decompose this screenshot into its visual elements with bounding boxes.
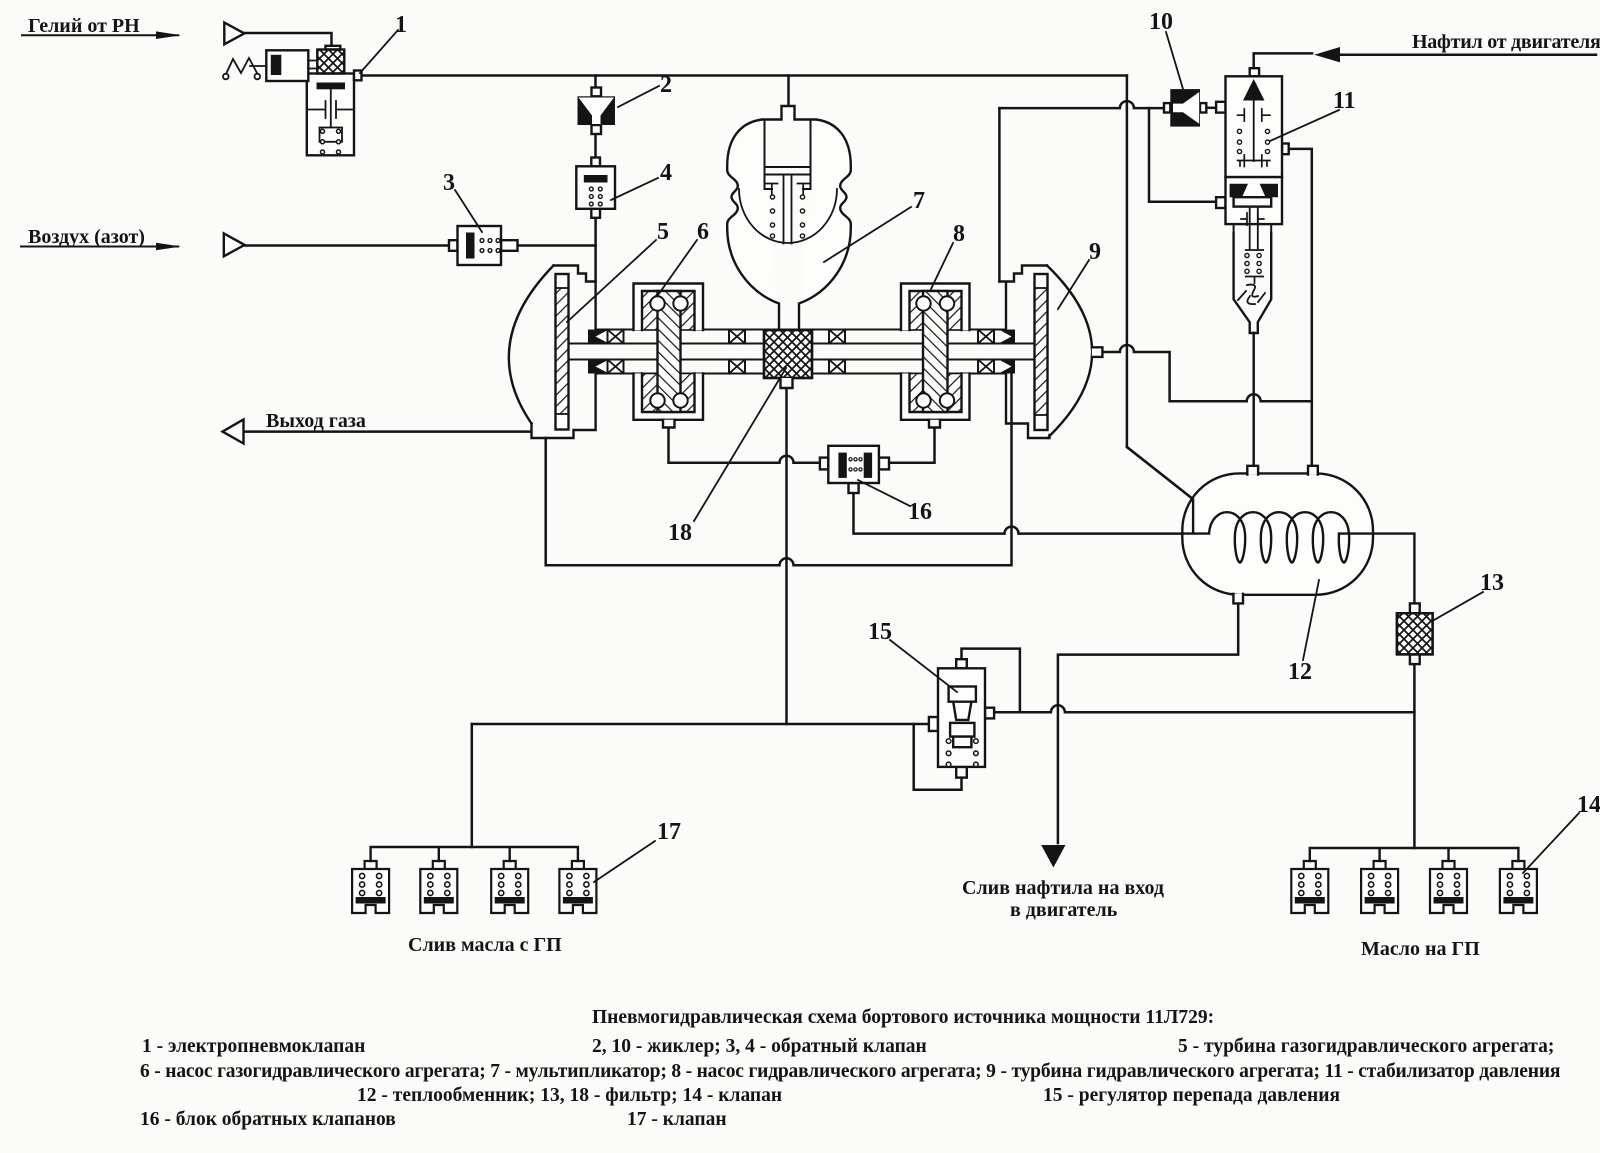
drain manifold 17 — [371, 847, 578, 861]
wire: coil outlet to filter 13 — [1339, 534, 1414, 604]
heat exchanger 12 — [1182, 473, 1373, 594]
svg-text:12 - теплообменник; 13, 18: 12 - теплообменник; 13, 18 - фильтр; 14 … — [357, 1085, 782, 1106]
svg-text:5 - турбина газогидравличес: 5 - турбина газогидравлического агрегата… — [1178, 1036, 1554, 1057]
turbine 5 rotor — [556, 274, 569, 430]
bearing right lower — [978, 360, 994, 374]
svg-text:Слив нафтила на вход: Слив нафтила на вход — [962, 877, 1164, 899]
pump 6 housing upper — [634, 284, 704, 331]
svg-text:10: 10 — [1149, 9, 1173, 35]
svg-text:7: 7 — [913, 188, 925, 214]
svg-text:1 - электропневмоклапан: 1 - электропневмоклапан — [142, 1036, 365, 1057]
wire: shaft lines — [569, 330, 1035, 374]
valve 14 unit c — [1430, 861, 1467, 913]
seal left upper — [588, 330, 607, 344]
svg-text:2, 10 - жиклер; 3, 4 - об: 2, 10 - жиклер; 3, 4 - обратный клапан — [592, 1036, 927, 1057]
wire: check valve 3 to vertical line tee — [518, 244, 596, 247]
node: label 18 leader — [694, 368, 786, 521]
heat exchanger top right nub — [1308, 466, 1318, 475]
node: label 9 leader — [1058, 260, 1089, 309]
valve 17 unit a — [352, 861, 389, 913]
multiplier 7 piston cylinder — [765, 121, 811, 190]
node: label 12 leader — [1303, 580, 1319, 660]
valve 14 unit a — [1291, 861, 1328, 913]
bearing mid-right lower — [829, 360, 845, 374]
wire: pump 6 drain to check valve block 16 with hop — [669, 428, 820, 463]
svg-text:13: 13 — [1480, 570, 1504, 596]
bearing mid-right upper — [829, 330, 845, 344]
node: air inlet arrow — [21, 246, 178, 248]
node: label 11 leader — [1270, 110, 1339, 141]
svg-text:2: 2 — [660, 72, 672, 98]
turbine 9 rotor — [1035, 274, 1048, 430]
wire: check valve 4 down to turbine 5 inlet — [594, 217, 597, 282]
node: label 17 leader — [594, 841, 655, 882]
multiplier 7 inner bowl — [739, 189, 837, 243]
pump 6 bearing balls — [650, 296, 664, 310]
heat exchanger top left nub — [1247, 466, 1258, 475]
svg-text:5: 5 — [657, 219, 669, 245]
node: label 2 leader — [618, 86, 659, 107]
svg-text:Выход газа: Выход газа — [266, 410, 366, 432]
svg-text:17: 17 — [657, 819, 681, 845]
pressure-drop regulator 15 — [929, 659, 994, 777]
svg-text:9: 9 — [1089, 239, 1101, 265]
pressure stabilizer 11 — [1216, 68, 1289, 333]
node: helium inlet arrow — [22, 34, 178, 36]
svg-text:16 - блок обратных клапанов: 16 - блок обратных клапанов — [140, 1109, 396, 1130]
jet 10 — [1164, 89, 1206, 127]
node: gas outlet open triangle — [223, 420, 244, 444]
wire: valve 15 bottom loop — [914, 724, 962, 790]
wire: helium inlet to valve 1 — [244, 33, 332, 46]
svg-text:в двигатель: в двигатель — [1010, 899, 1118, 921]
pump 6 rotor column — [658, 291, 681, 412]
wire: main gas line from valve 1 output across top — [362, 74, 1127, 77]
bearing left lower — [608, 360, 624, 374]
coupling 18 block — [764, 330, 812, 378]
check valve block 16 — [820, 446, 889, 493]
electro-pneumatic valve 1 — [223, 46, 362, 156]
node: label 15 leader — [890, 640, 957, 692]
node: label 13 leader — [1434, 592, 1483, 620]
pump 8 bearing balls — [916, 296, 930, 310]
node: label 1 leader — [360, 30, 398, 73]
svg-text:Нафтил от двигателя: Нафтил от двигателя — [1412, 31, 1600, 53]
wire: line to jet 10 with hop — [999, 101, 1164, 108]
bearing left upper — [608, 330, 624, 344]
wire: naftil drain from heat exchanger bottom to engine — [1058, 603, 1238, 843]
bearing mid-left lower — [729, 360, 745, 374]
wire: valve 15 top loop — [962, 649, 1020, 713]
node: naftil drain arrowhead — [1041, 845, 1065, 868]
svg-text:11: 11 — [1333, 88, 1356, 114]
pump 8 drain stem — [929, 420, 940, 428]
pump 8 housing lower — [901, 374, 970, 420]
wire: valve 15 output to filter column with hop — [994, 705, 1414, 712]
wire: multiplier 7 top stem to main line — [787, 76, 790, 107]
seal right upper — [1001, 330, 1015, 344]
svg-text:1: 1 — [395, 12, 407, 38]
node: label 8 leader — [931, 243, 953, 289]
node: label 14 leader — [1523, 813, 1579, 873]
wire: turbine 9 shaft nub to heat exchanger line with hops — [1102, 345, 1311, 401]
bearing right upper — [978, 330, 994, 344]
svg-text:16: 16 — [908, 499, 932, 525]
node: label 6 leader — [658, 240, 697, 295]
node: label 7 leader — [824, 207, 911, 262]
multiplier 7 piston rod — [784, 175, 792, 244]
heat exchanger coil — [1127, 447, 1349, 563]
svg-text:8: 8 — [953, 221, 965, 247]
svg-text:Воздух (азот): Воздух (азот) — [28, 226, 145, 248]
svg-text:18: 18 — [668, 520, 692, 546]
svg-text:17 - клапан: 17 - клапан — [627, 1109, 727, 1130]
svg-text:14: 14 — [1577, 792, 1600, 818]
wire: branch down to stabilizer 11 lower-left port — [1149, 108, 1216, 202]
wire: check valve block 16 bottom to heat exchanger inlet with hop — [854, 493, 1210, 534]
wire: pump 8 drain to check valve block 16 — [889, 428, 935, 463]
valve 17 unit d — [559, 861, 596, 913]
wire: gas outlet line — [244, 430, 532, 433]
bearing mid-left upper — [729, 330, 745, 344]
pump 8 rotor column — [923, 291, 948, 412]
svg-text:6: 6 — [697, 219, 709, 245]
multiplier 7 body — [727, 106, 851, 330]
check valve 3 — [449, 226, 518, 265]
svg-text:15 - регулятор перепада да: 15 - регулятор перепада давления — [1043, 1085, 1340, 1106]
svg-text:12: 12 — [1288, 659, 1312, 685]
node: naftil inlet arrowhead — [1314, 47, 1340, 62]
node: label 3 leader — [455, 190, 482, 232]
svg-text:Масло на ГП: Масло на ГП — [1361, 938, 1480, 960]
wire: air inlet to check valve 3 — [245, 244, 449, 247]
node: label 4 leader — [611, 178, 658, 200]
svg-text:3: 3 — [443, 170, 455, 196]
valve 17 unit b — [420, 861, 457, 913]
valve 17 unit c — [491, 861, 528, 913]
wire: stabilizer 11 bottom outlet down to heat exchanger left nub — [1252, 333, 1255, 466]
svg-text:4: 4 — [660, 160, 672, 186]
svg-text:Пневмогидравлическая схема бор: Пневмогидравлическая схема бортового ист… — [592, 1007, 1214, 1028]
svg-text:Гелий от РН: Гелий от РН — [28, 15, 140, 37]
heat exchanger bottom nub — [1233, 594, 1243, 604]
wire: central multiplier coupling drain down — [785, 388, 788, 724]
node: helium port triangle — [224, 23, 244, 45]
pump 6 drain stem — [663, 420, 675, 428]
node: air port triangle — [224, 233, 245, 256]
wire: stabilizer 11 right port loop down to heat exchanger right nub — [1289, 149, 1312, 466]
wire: filter 13 down to oil manifold 14 — [1413, 664, 1416, 848]
valve 14 unit d — [1500, 861, 1537, 913]
wire: main line down right side, diagonal into heat exchanger coil — [1127, 76, 1193, 534]
wire: jet 10 to stabilizer 11 — [1206, 107, 1216, 110]
filter 13 — [1397, 603, 1433, 664]
pump 8 housing upper — [901, 284, 970, 331]
seal left lower — [588, 360, 607, 374]
wire: turbine drain line linking turbine 5 and turbine 9 with hop — [546, 374, 1012, 565]
wire: oil drain header line to valve 15 left port — [472, 723, 929, 726]
oil manifold 14 — [1310, 848, 1519, 861]
wire: jet 2 to check valve 4 — [594, 134, 597, 158]
node: label 16 leader — [858, 480, 910, 506]
node: label 10 leader — [1166, 32, 1183, 89]
turbine 9 shaft nub — [1092, 347, 1103, 357]
jet 2 — [578, 88, 616, 135]
pump 6 housing lower — [634, 374, 704, 420]
wire: jet 2 feed tee — [594, 76, 597, 88]
node: label 5 leader — [567, 240, 656, 322]
turbine 5 housing — [532, 266, 596, 439]
check valve 4 — [576, 158, 615, 218]
wire: riser to drain manifold 17 — [471, 724, 474, 847]
wire: naftil inlet line — [1338, 53, 1596, 56]
wire: stabilizer 11 top stem to naftil inlet — [1254, 53, 1312, 67]
valve 14 unit b — [1361, 861, 1398, 913]
coupling drain stem — [781, 378, 793, 388]
turbine 9 housing — [999, 266, 1049, 439]
wire: down to turbine 9 housing top — [998, 108, 1001, 281]
svg-text:6 - насос газогидравлического: 6 - насос газогидравлического агрегата; … — [140, 1061, 1561, 1082]
seal right lower — [1001, 360, 1015, 374]
svg-text:15: 15 — [868, 619, 892, 645]
svg-text:Слив масла с ГП: Слив масла с ГП — [408, 934, 562, 956]
